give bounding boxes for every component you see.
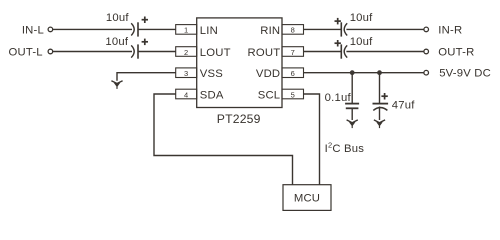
- wire VSS pin 3 to ground: [117, 73, 176, 81]
- pin 5 box: [282, 89, 304, 99]
- svg-text:LIN: LIN: [200, 25, 218, 37]
- wire IN-L to C1: [53, 28, 132, 30]
- capacitor C1 10uf: [131, 17, 148, 37]
- pin 3 box: [176, 68, 197, 78]
- pin 8 box: [282, 25, 304, 35]
- svg-text:5: 5: [291, 90, 295, 99]
- svg-text:8: 8: [291, 26, 295, 35]
- capacitor C2 10uf: [131, 39, 148, 59]
- svg-text:5V-9V DC: 5V-9V DC: [439, 68, 491, 80]
- capacitor C5 0.1uf: [345, 104, 359, 109]
- wire VDD to C6: [379, 73, 381, 103]
- wire C1 to pin 1: [138, 28, 176, 30]
- wire C5 to ground: [351, 108, 353, 120]
- wire pin 8 to C3: [304, 28, 341, 30]
- svg-text:LOUT: LOUT: [200, 47, 231, 59]
- wire VDD to C5: [351, 73, 353, 103]
- svg-text:SDA: SDA: [200, 90, 224, 102]
- wire VDD rail: [304, 72, 425, 74]
- capacitor C6 47uf: [373, 93, 389, 110]
- terminal OUT-L: [48, 49, 53, 54]
- junction node VDD-C5: [350, 70, 355, 75]
- wire C6 to ground: [379, 107, 381, 121]
- pin 1 box: [176, 25, 197, 35]
- wire SCL pin 5 to MCU: [304, 94, 320, 185]
- wire pin 7 to C4: [304, 51, 341, 53]
- MCU box: [283, 185, 331, 211]
- ground VSS: [111, 81, 122, 89]
- svg-text:1: 1: [184, 26, 188, 35]
- svg-text:10uf: 10uf: [105, 36, 128, 48]
- svg-text:OUT-R: OUT-R: [438, 46, 474, 58]
- junction node VDD-C6: [377, 70, 382, 75]
- terminal IN-L: [48, 27, 53, 32]
- pin 6 box: [282, 68, 304, 78]
- IC U1 PT2259 body: [197, 18, 282, 108]
- wire C3 to IN-R: [346, 28, 424, 30]
- wire C2 to pin 2: [138, 51, 176, 53]
- svg-text:PT2259: PT2259: [217, 112, 261, 126]
- svg-text:47uf: 47uf: [392, 100, 415, 112]
- svg-text:VSS: VSS: [200, 68, 223, 80]
- svg-text:IN-L: IN-L: [22, 24, 44, 36]
- wire OUT-L to C2: [53, 51, 132, 53]
- svg-text:2: 2: [184, 48, 188, 57]
- terminal 5V-9V DC: [424, 70, 429, 75]
- capacitor C4 10uf: [335, 40, 348, 59]
- pin 7 box: [282, 47, 304, 57]
- svg-text:I2C Bus: I2C Bus: [325, 141, 365, 155]
- pin 2 box: [176, 47, 197, 57]
- svg-text:4: 4: [184, 90, 188, 99]
- wire C4 to OUT-R: [346, 51, 424, 53]
- svg-text:SCL: SCL: [258, 90, 281, 102]
- capacitor C3 10uf: [335, 18, 348, 37]
- wire SDA pin 4 to MCU: [154, 94, 293, 185]
- ground C5: [347, 120, 358, 128]
- svg-text:MCU: MCU: [294, 192, 320, 204]
- svg-text:VDD: VDD: [256, 68, 280, 80]
- svg-text:0.1uf: 0.1uf: [325, 92, 352, 104]
- terminal OUT-R: [424, 49, 429, 54]
- ground C6: [374, 120, 385, 128]
- terminal IN-R: [424, 27, 429, 32]
- svg-text:10uf: 10uf: [350, 36, 373, 48]
- svg-text:10uf: 10uf: [106, 12, 129, 24]
- svg-text:6: 6: [291, 69, 295, 78]
- svg-text:RIN: RIN: [260, 25, 280, 37]
- pin 4 box: [176, 89, 197, 99]
- svg-text:ROUT: ROUT: [247, 47, 280, 59]
- svg-text:OUT-L: OUT-L: [9, 46, 43, 58]
- svg-text:7: 7: [291, 48, 295, 57]
- svg-text:3: 3: [184, 69, 188, 78]
- svg-text:10uf: 10uf: [350, 12, 373, 24]
- svg-text:IN-R: IN-R: [438, 24, 462, 36]
